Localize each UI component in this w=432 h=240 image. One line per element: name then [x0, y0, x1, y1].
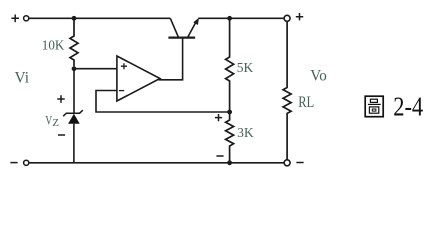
- input - polarity sign: [10, 162, 17, 164]
- svg-text:10K: 10K: [42, 39, 65, 54]
- input + terminal: [24, 16, 29, 21]
- svg-text:2-4: 2-4: [393, 91, 423, 121]
- wire top rail left: [29, 17, 170, 19]
- wire zener anode to bottom rail: [73, 124, 75, 163]
- resistor 5K: [226, 18, 234, 112]
- zener - polarity sign: [58, 134, 65, 136]
- wire op-amp output to transistor base: [159, 38, 183, 79]
- caption character 圖: [365, 96, 383, 117]
- input + polarity sign: [11, 15, 19, 23]
- node top-left junction: [72, 16, 77, 21]
- output - terminal: [284, 160, 290, 166]
- svg-text:Z: Z: [52, 117, 59, 129]
- op-amp + input mark: [121, 63, 127, 69]
- op-amp U1 body: [117, 56, 160, 101]
- svg-text:RL: RL: [298, 94, 314, 111]
- wire top rail right: [198, 17, 284, 19]
- op-amp - input mark: [119, 90, 124, 92]
- divider - polarity sign: [216, 155, 223, 157]
- divider + polarity sign: [215, 114, 222, 121]
- wire node A down to zener: [73, 69, 75, 114]
- zener diode VZ cathode bar: [63, 110, 83, 116]
- node A (10K / zener / op-amp + input): [72, 66, 77, 71]
- input - terminal: [24, 160, 29, 165]
- output + polarity sign: [296, 13, 303, 20]
- node top divider junction: [227, 16, 232, 21]
- node bottom divider junction: [227, 160, 232, 165]
- resistor 10K: [70, 18, 78, 66]
- transistor Q1 collector: [170, 18, 178, 37]
- transistor Q1 emitter arrowhead: [193, 18, 199, 25]
- output + terminal: [284, 15, 290, 21]
- transistor Q1 base bar: [168, 36, 195, 38]
- resistor 3K: [226, 112, 234, 163]
- zener + polarity sign: [57, 95, 64, 102]
- resistor RL: [283, 21, 291, 159]
- wire inverting input feedback: [96, 91, 230, 113]
- svg-text:3K: 3K: [237, 126, 253, 141]
- transistor Q1 emitter: [188, 22, 197, 38]
- svg-text:Vo: Vo: [310, 68, 327, 85]
- svg-text:Vi: Vi: [15, 70, 30, 87]
- output - polarity sign: [296, 162, 303, 164]
- svg-text:5K: 5K: [237, 61, 254, 76]
- zener diode VZ triangle: [68, 114, 80, 124]
- wire to op-amp non-inverting input: [74, 68, 117, 70]
- node B (5K / 3K / feedback): [227, 110, 232, 115]
- wire bottom rail: [29, 162, 284, 164]
